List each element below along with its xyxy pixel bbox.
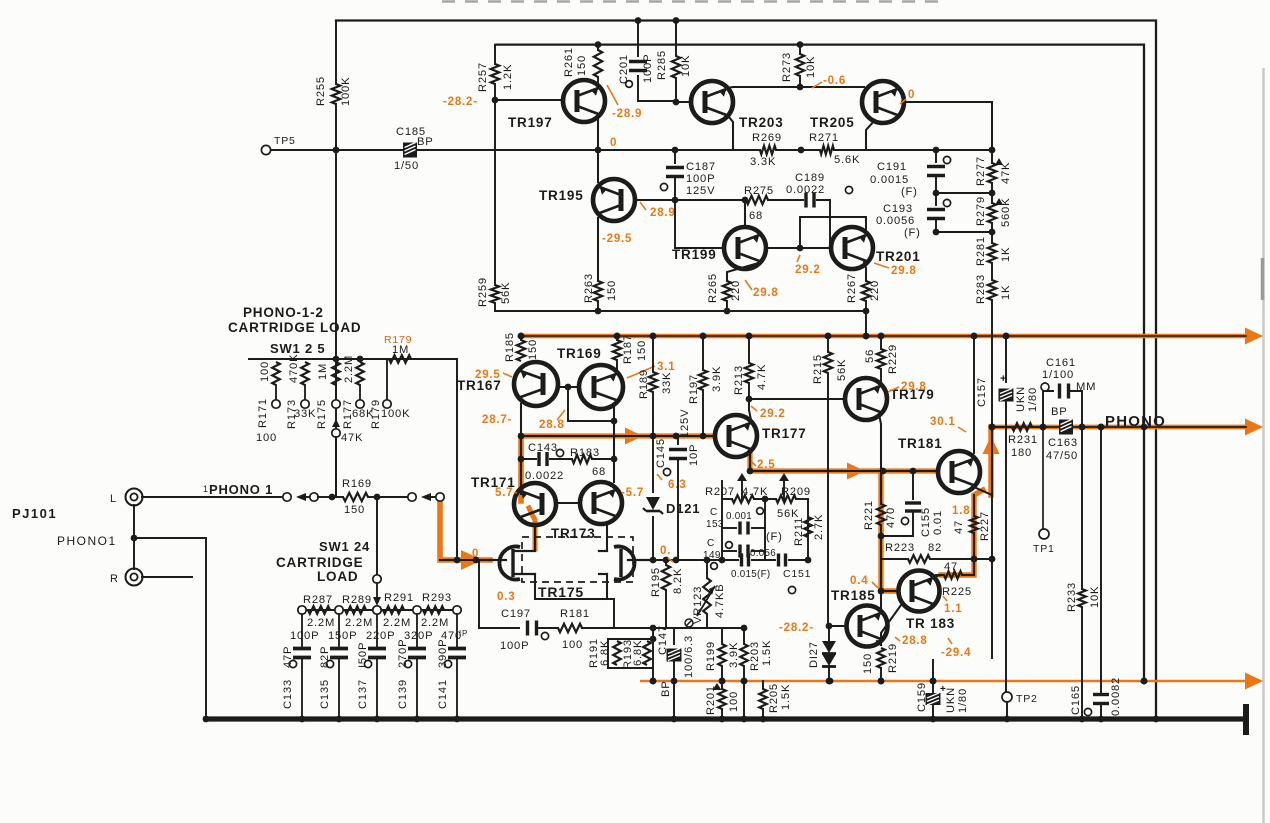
resistor R177 leg [342, 355, 374, 429]
svg-text:DI27: DI27 [808, 641, 820, 668]
svg-text:82P: 82P [319, 646, 331, 668]
svg-text:R263: R263 [583, 273, 595, 303]
select mark R207 [737, 473, 747, 481]
resistor R185 [504, 332, 539, 362]
svg-text:0.0015: 0.0015 [870, 174, 909, 186]
resistor R261 [563, 41, 602, 84]
label SW124 [319, 539, 370, 554]
transistor TR173 [551, 482, 622, 541]
svg-text:SW1 24: SW1 24 [319, 539, 370, 554]
resistor R199 [705, 628, 740, 684]
capacitor C165 [1070, 677, 1122, 722]
voltage 0 TR197 emitter [610, 137, 617, 149]
svg-text:150: 150 [576, 55, 588, 76]
svg-text:IP: IP [459, 629, 468, 638]
svg-text:R219: R219 [887, 643, 899, 673]
resistor R225 [942, 561, 974, 598]
resistor R219 [862, 643, 899, 684]
capacitor C197 [500, 608, 558, 652]
svg-text:1/80: 1/80 [957, 688, 969, 713]
svg-text:R201: R201 [705, 685, 717, 715]
svg-text:10K: 10K [680, 55, 692, 77]
svg-text:68: 68 [749, 210, 763, 222]
wire TR183 emitter join [877, 605, 901, 645]
voltage 0 560row [660, 545, 673, 562]
orange signal path output loop [936, 427, 1000, 575]
svg-text:0.3: 0.3 [497, 591, 515, 603]
svg-text:0.015(F): 0.015(F) [731, 569, 770, 580]
svg-text:TP2: TP2 [1016, 693, 1038, 705]
capacitor C155 [881, 471, 944, 537]
svg-text:47P: 47P [282, 646, 294, 668]
svg-text:R285: R285 [656, 50, 668, 80]
svg-text:100: 100 [256, 432, 277, 444]
resistor R213 [733, 333, 768, 399]
svg-text:47K: 47K [1000, 162, 1012, 184]
wire bottom supply bus (orange) [640, 673, 1263, 690]
svg-text:1M: 1M [392, 344, 409, 356]
svg-text:150: 150 [527, 339, 539, 360]
transistor TR171 [471, 475, 556, 525]
svg-text:100: 100 [562, 639, 583, 651]
svg-text:150: 150 [636, 340, 648, 361]
svg-text:R273: R273 [781, 52, 793, 82]
resistor R267 [846, 273, 881, 339]
svg-text:R227: R227 [979, 511, 991, 541]
RIAA network wires [722, 481, 808, 560]
svg-text:D121: D121 [666, 501, 700, 516]
svg-text:3.3K: 3.3K [750, 156, 776, 168]
svg-text:R281: R281 [975, 236, 987, 266]
node TP2 [1002, 692, 1038, 722]
svg-text:TP5: TP5 [274, 135, 296, 147]
svg-text:1M: 1M [317, 363, 329, 380]
svg-text:TR173: TR173 [551, 526, 596, 541]
svg-text:L: L [110, 493, 117, 505]
svg-text:TR169: TR169 [557, 346, 602, 361]
svg-text:33K: 33K [661, 372, 673, 394]
svg-text:3.9K: 3.9K [711, 366, 723, 392]
voltage 29.2 TR177 [751, 406, 786, 420]
svg-text:56K: 56K [836, 359, 848, 381]
svg-text:R199: R199 [705, 641, 717, 671]
label BP [660, 680, 672, 697]
svg-text:180: 180 [1011, 447, 1032, 459]
resistor R255 [315, 76, 352, 106]
wire TR173 emitter to FET [606, 523, 608, 549]
svg-text:C145: C145 [655, 438, 667, 468]
svg-text:C187: C187 [686, 161, 716, 173]
transistor TR201 [831, 227, 921, 269]
svg-text:125V: 125V [686, 185, 715, 197]
transistor TR167 [457, 362, 558, 406]
svg-text:TP1: TP1 [1033, 543, 1055, 555]
resistor R271 [809, 132, 860, 166]
svg-text:28.9: 28.9 [650, 207, 676, 219]
svg-text:560K: 560K [1000, 198, 1012, 227]
voltage 0.4 [850, 575, 878, 588]
svg-text:R189: R189 [638, 369, 650, 399]
svg-text:6.8K: 6.8K [599, 640, 611, 666]
svg-text:1/80: 1/80 [1027, 387, 1039, 412]
capacitor C139 [397, 614, 426, 722]
orange signal path R221 column [881, 471, 896, 591]
capacitor C193 [876, 193, 992, 239]
svg-text:R197: R197 [688, 374, 700, 404]
svg-text:VR123: VR123 [692, 586, 704, 624]
wire TR181 base [936, 470, 938, 472]
resistor R189 [638, 333, 673, 440]
svg-text:6.8K: 6.8K [632, 640, 644, 666]
wire TR169 emitter column [611, 406, 618, 482]
voltage 29.8 TR179 [888, 381, 927, 393]
resistor R215 [812, 333, 848, 626]
svg-text:29.8: 29.8 [901, 381, 927, 393]
svg-text:R175: R175 [316, 399, 328, 429]
svg-text:TR197: TR197 [508, 115, 553, 130]
svg-text:29.2: 29.2 [795, 264, 821, 276]
svg-text:2.5: 2.5 [757, 459, 775, 471]
svg-text:-0.6: -0.6 [823, 75, 846, 87]
resistor R227 [953, 511, 991, 541]
wire TR205 collector [866, 120, 875, 150]
svg-text:56K: 56K [500, 282, 512, 304]
svg-text:C157: C157 [976, 377, 988, 407]
svg-text:R277: R277 [975, 156, 987, 186]
svg-text:270P: 270P [397, 639, 409, 668]
svg-text:470: 470 [885, 507, 897, 528]
svg-text:29.8: 29.8 [753, 287, 779, 299]
wire TR205 emitter to output column [902, 102, 992, 150]
resistor R265 [707, 273, 742, 314]
orange signal path mid bus [521, 428, 714, 445]
wire feedback rail B [497, 45, 1144, 681]
svg-text:R229: R229 [887, 344, 899, 374]
svg-text:(F): (F) [766, 531, 783, 543]
svg-text:2.7K: 2.7K [813, 514, 825, 540]
label PHONO [1105, 413, 1166, 430]
svg-text:0.4: 0.4 [850, 575, 868, 587]
svg-text:C161: C161 [1046, 357, 1076, 369]
svg-text:0.001: 0.001 [726, 511, 752, 522]
voltage 29.8 TR199 [745, 280, 779, 299]
capacitor C191 [870, 150, 951, 198]
svg-text:100P: 100P [642, 54, 654, 83]
resistor R187 [613, 333, 648, 373]
wire R255/SW125 column [335, 21, 337, 498]
resistor R221 [863, 500, 897, 530]
svg-text:R269: R269 [752, 132, 782, 144]
svg-text:0.0082: 0.0082 [1110, 677, 1122, 716]
svg-text:PHONO 1: PHONO 1 [209, 482, 273, 497]
resistor R179 [384, 334, 457, 560]
svg-text:R233: R233 [1066, 582, 1078, 612]
svg-text:29.5: 29.5 [475, 369, 501, 381]
svg-text:28.8: 28.8 [902, 635, 928, 647]
orange signal path TR177 emitter row [750, 452, 936, 480]
switch SW124 bus [302, 609, 457, 611]
wire TR199-TR201 row [764, 242, 831, 251]
capacitor C147 [657, 625, 695, 722]
svg-text:1.5K: 1.5K [780, 684, 792, 710]
capacitor C149 [703, 538, 776, 569]
wire TR179 base row [749, 398, 845, 400]
svg-text:4.7KB: 4.7KB [714, 584, 726, 618]
wire TR171 emitter to FET [534, 525, 536, 549]
svg-text:47/50: 47/50 [1046, 450, 1078, 462]
svg-text:125V: 125V [679, 409, 691, 438]
svg-text:1/100: 1/100 [1042, 369, 1074, 381]
svg-text:R271: R271 [809, 132, 839, 144]
svg-text:1.2K: 1.2K [502, 64, 514, 90]
svg-text:R293: R293 [422, 592, 452, 604]
wire output right column [1098, 424, 1105, 692]
switch leg 5 [370, 359, 410, 429]
svg-text:BP: BP [660, 680, 672, 697]
svg-text:R: R [110, 573, 119, 585]
svg-text:0: 0 [908, 89, 915, 101]
svg-text:R207: R207 [705, 486, 735, 498]
svg-text:R259: R259 [477, 277, 489, 307]
voltage 6.3 [657, 474, 686, 491]
svg-text:+: + [1000, 373, 1007, 385]
svg-text:2.2M: 2.2M [421, 617, 449, 629]
wire -29.8V supply bus (orange highlighted) [520, 328, 1263, 345]
svg-text:-5.7: -5.7 [621, 487, 644, 499]
wire TR177 emitter row [747, 452, 938, 474]
junction dots orange buses [518, 333, 1148, 685]
svg-text:R257: R257 [477, 62, 489, 92]
svg-text:R255: R255 [315, 76, 327, 106]
capacitor C201 [618, 17, 676, 101]
svg-text:R215: R215 [812, 354, 824, 384]
svg-text:8.2K: 8.2K [672, 568, 684, 594]
resistor R269 [750, 132, 782, 168]
voltage 2.5 [751, 459, 775, 471]
svg-text:C139: C139 [397, 679, 409, 709]
voltage 0 TR205 [900, 89, 915, 104]
label CARTRIDGE sw124 [276, 555, 363, 570]
svg-text:C201: C201 [618, 54, 630, 84]
voltage -28.2 [443, 96, 478, 108]
svg-text:153: 153 [706, 519, 724, 530]
wire TR195 emitter [597, 218, 599, 281]
svg-text:2.2M: 2.2M [383, 617, 411, 629]
capacitor C187 [660, 150, 716, 199]
label SW125 [270, 341, 325, 356]
voltage -28.9 TR197 [607, 85, 642, 120]
resistor R287 [298, 594, 335, 629]
svg-text:C189: C189 [795, 172, 825, 184]
select mark R209 [779, 473, 789, 481]
wire FET source row [535, 599, 614, 628]
svg-text:R183: R183 [570, 447, 600, 459]
ground bus [206, 704, 1249, 735]
resistor R281 [975, 232, 1012, 280]
resistor R263 [583, 273, 618, 314]
resistor R229 [864, 333, 899, 381]
svg-text:BP: BP [417, 136, 434, 148]
svg-text:0.: 0. [660, 545, 671, 557]
voltage 1.8 [952, 505, 970, 517]
capacitor C133 [282, 614, 311, 722]
voltage 1.1 [943, 596, 962, 615]
resistor R279 [975, 193, 1012, 235]
resistor R259 [477, 277, 512, 307]
capacitor C145 [655, 409, 700, 560]
svg-text:C151: C151 [783, 568, 811, 580]
svg-text:0.0056: 0.0056 [876, 215, 915, 227]
resistor R257 [477, 62, 514, 92]
transistor TR181 [898, 436, 980, 493]
svg-text:1K: 1K [1000, 285, 1012, 300]
svg-text:28.7-: 28.7- [482, 414, 512, 426]
node TR197 base [492, 97, 563, 104]
resistor R173 leg [286, 354, 316, 429]
resistor R201 [705, 681, 740, 722]
capacitor C189 [768, 172, 853, 248]
svg-text:28.8: 28.8 [539, 419, 565, 431]
svg-text:C137: C137 [357, 679, 369, 709]
wire TR183 base [881, 590, 898, 592]
wire TR201 emitter [864, 262, 866, 281]
capacitor C159 [916, 660, 969, 722]
resistor R203 [740, 625, 773, 723]
svg-text:1.8: 1.8 [952, 505, 970, 517]
svg-text:(F): (F) [904, 227, 921, 239]
svg-text:PJ101: PJ101 [12, 506, 57, 521]
resistor R275 [744, 185, 774, 222]
wire emitter rail -29.8 [495, 310, 866, 312]
label CARTRIDGE LOAD [228, 320, 361, 335]
wire TR183 collector [933, 575, 941, 577]
transistor TR179 [845, 378, 935, 420]
svg-text:1/50: 1/50 [394, 160, 419, 172]
voltage -0.6 [812, 75, 846, 88]
wire TR203 emitter [729, 117, 733, 150]
voltage 0.3 [497, 591, 515, 603]
wire TR177 collector [746, 396, 753, 420]
svg-text:100P: 100P [500, 640, 529, 652]
resistor R169 [332, 478, 380, 516]
svg-text:UKN: UKN [945, 687, 957, 713]
voltage 3.1 [627, 361, 675, 378]
wire jack ground [131, 505, 210, 722]
label PJ101 [12, 506, 57, 521]
svg-text:R169: R169 [342, 478, 372, 490]
transistor TR203 [676, 81, 784, 130]
label PHONO1 [57, 534, 117, 548]
svg-text:-28.9: -28.9 [612, 108, 642, 120]
svg-text:100K: 100K [381, 408, 410, 420]
capacitor C151 [722, 554, 811, 594]
wire SW124 stem [373, 497, 381, 606]
wire TR179 emitter [879, 414, 881, 471]
wire TR199 emitter [727, 262, 762, 281]
voltage -5.7 [621, 487, 644, 499]
svg-text:-29.4: -29.4 [941, 647, 971, 659]
resistor R231 [989, 423, 1043, 459]
svg-text:220: 220 [730, 280, 742, 301]
wire output node column [974, 427, 995, 658]
svg-text:3.1: 3.1 [657, 361, 675, 373]
wire jack R stub [142, 576, 192, 578]
label cap values row [290, 629, 468, 642]
svg-text:C163: C163 [1048, 437, 1078, 449]
switch contacts input [283, 493, 336, 501]
svg-text:10K: 10K [805, 56, 817, 78]
svg-text:R279: R279 [975, 196, 987, 226]
wire TR199 collector [744, 200, 746, 228]
svg-text:56: 56 [864, 349, 876, 363]
svg-text:TR203: TR203 [739, 115, 784, 130]
svg-text:R287: R287 [303, 594, 333, 606]
resistor R283 [975, 274, 1012, 430]
svg-text:R267: R267 [846, 273, 858, 303]
svg-text:150: 150 [344, 504, 365, 516]
transistor TR205 [810, 81, 904, 130]
capacitor C135 [319, 614, 348, 722]
wire TR195 base row [637, 197, 748, 248]
svg-text:TR181: TR181 [898, 436, 943, 451]
resistor R211 [793, 514, 825, 546]
voltage 28.8 TR183 [895, 635, 928, 647]
svg-text:R223: R223 [885, 542, 915, 554]
voltage 29.2 TR199 [795, 255, 821, 276]
svg-text:C141: C141 [437, 679, 449, 709]
svg-text:4.7K: 4.7K [742, 486, 768, 498]
svg-text:0.056: 0.056 [750, 548, 776, 559]
svg-text:R225: R225 [942, 586, 972, 598]
svg-text:I50P: I50P [357, 642, 369, 668]
svg-text:R181: R181 [560, 608, 590, 620]
svg-text:C: C [710, 507, 718, 518]
svg-text:33K: 33K [294, 408, 316, 420]
resistor R195 [650, 560, 684, 628]
svg-text:2.2M: 2.2M [307, 617, 335, 629]
wire mid signal bus [521, 433, 716, 440]
svg-text:390P: 390P [437, 639, 449, 668]
svg-text:1.5K: 1.5K [761, 640, 773, 666]
wire feedback row 628 [440, 559, 479, 561]
svg-text:R213: R213 [733, 365, 745, 395]
svg-text:R291: R291 [384, 592, 414, 604]
svg-text:100/6.3: 100/6.3 [683, 635, 695, 678]
svg-text:MM: MM [1076, 381, 1096, 393]
resistor R197 [688, 333, 723, 440]
resistors R191 R193 [588, 636, 656, 669]
svg-text:C159: C159 [916, 682, 928, 712]
svg-text:R265: R265 [707, 273, 719, 303]
wire rail junctions bottom [1141, 424, 1160, 723]
diode D121 [643, 436, 700, 563]
svg-text:2.2M: 2.2M [343, 355, 355, 383]
svg-text:C135: C135 [319, 679, 331, 709]
variable resistor VR123 [685, 560, 726, 628]
resistor R223 [878, 533, 978, 563]
svg-text:R209: R209 [781, 486, 811, 498]
svg-text:470K: 470K [288, 354, 300, 383]
svg-text:47K: 47K [341, 432, 363, 444]
svg-text:29.2: 29.2 [760, 408, 786, 420]
transistor TR197 [508, 80, 605, 130]
svg-text:5.7-: 5.7- [495, 487, 518, 499]
svg-text:0.0022: 0.0022 [786, 184, 825, 196]
svg-text:0: 0 [610, 137, 617, 149]
wire TR195 collector [597, 150, 599, 182]
connector PJ101 jack R [110, 569, 143, 586]
capacitor C153 [706, 507, 799, 543]
